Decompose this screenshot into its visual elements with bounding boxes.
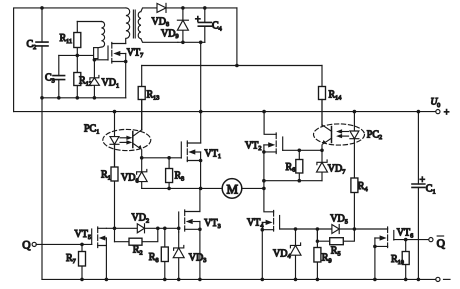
svg-text:PC2: PC2: [367, 129, 382, 141]
wire : VT1 source down to motor node: [200, 161, 202, 189]
capacitor C3: [45, 55, 65, 97]
svg-text:VD3: VD3: [189, 252, 207, 264]
zener diode VD7: [317, 150, 346, 180]
node : R6 top junction: [298, 149, 302, 153]
svg-text:R11: R11: [60, 33, 73, 45]
wire : VT7 drain up to primary winding: [125, 39, 127, 44]
node : R9/R5 riser junction: [316, 227, 320, 231]
wire : VT2 source down to motor node: [263, 152, 265, 189]
capacitor C4: [195, 8, 222, 42]
node : VT6 source junction: [373, 245, 377, 249]
svg-text:VD1: VD1: [102, 78, 120, 90]
node : R3 top junction: [167, 156, 171, 160]
node : VT3 gate junction: [177, 227, 181, 231]
node : VT1 source junction: [199, 159, 203, 163]
svg-text:R14: R14: [329, 90, 342, 102]
wire : VT4 source to bottom rail: [261, 230, 263, 280]
node : right motor junction: [262, 187, 266, 191]
resistor R1: [101, 144, 118, 241]
transistor VT7 (MOSFET): [94, 43, 143, 64]
resistor R9: [314, 229, 332, 279]
optocoupler PC1: [84, 124, 151, 151]
node : VD7 top junction: [320, 149, 324, 153]
wire : VT6 drain wire y=228.3: [354, 227, 387, 230]
terminal Q-bar output: [429, 236, 446, 250]
svg-text:C4: C4: [212, 21, 222, 33]
wire : VT4 gate wire y=229: [280, 228, 355, 230]
wire : main positive bus y=111.6: [14, 111, 436, 113]
svg-text:VD5: VD5: [330, 214, 348, 226]
diode LED of PC2: [350, 112, 359, 178]
svg-text:VT1: VT1: [205, 148, 221, 160]
svg-text:+: +: [420, 175, 426, 186]
transistor VT2 (MOSFET mirrored): [245, 112, 283, 154]
wire : VT1 gate wire y=157.8: [142, 157, 182, 159]
node : main bus junctions: [113, 110, 421, 114]
node : aux feed junction: [235, 64, 239, 68]
svg-text:R13: R13: [147, 90, 160, 102]
svg-text:R1: R1: [101, 170, 111, 182]
terminal Q input: [22, 240, 36, 252]
node : PC1 emitter / VD6 / VT1 gate junction: [140, 156, 144, 160]
svg-text:Q: Q: [437, 238, 446, 250]
transformer T1 primary winding: [126, 8, 130, 38]
node : bottom rail junctions: [80, 278, 420, 282]
svg-text:C2: C2: [27, 39, 37, 51]
svg-text:VD7: VD7: [328, 164, 346, 176]
svg-text:VT2: VT2: [245, 140, 261, 152]
svg-text:VD2: VD2: [132, 213, 150, 225]
zener diode VD1: [89, 60, 119, 98]
zener diode VD6: [121, 158, 147, 189]
svg-text:VT5: VT5: [75, 229, 91, 241]
diode VD2: [132, 213, 150, 233]
transformer T1 secondary winding: [138, 8, 178, 42]
svg-text:+: +: [444, 107, 450, 118]
resistor R11: [60, 22, 81, 56]
diode VD8: [152, 3, 237, 28]
wire : aux feed wire y=65.5 R13 to R14: [142, 65, 322, 67]
node : VT2 source junction: [262, 150, 266, 154]
zener diode VD3: [173, 232, 206, 279]
wire : PC2 light arrows: [336, 129, 348, 138]
wire : top-left rail (main + to primary top): [14, 8, 126, 112]
node : VT4 source junction: [261, 228, 265, 232]
terminal U0 +: [431, 98, 450, 119]
resistor R2: [115, 228, 158, 256]
node : C2 top junction: [40, 6, 44, 10]
wire : aux common wire y=42.3: [178, 41, 205, 43]
wire : riser main bus to VT1 drain x=200.7: [200, 42, 202, 143]
svg-text:PC1: PC1: [84, 124, 99, 136]
wire : VT7 source down to primary common: [125, 62, 127, 98]
svg-text:M: M: [227, 182, 239, 197]
node : VD4 top junction: [294, 227, 298, 231]
node : R11/R12 junction: [76, 54, 80, 58]
diode LED of PC1: [110, 112, 119, 167]
node : junctions on primary common: [40, 96, 96, 100]
svg-text:VD4: VD4: [273, 248, 291, 260]
svg-text:R2: R2: [133, 245, 143, 257]
resistor R5: [316, 229, 355, 257]
svg-text:VD8: VD8: [152, 16, 170, 28]
node : junctions on left motor wire: [167, 187, 202, 191]
svg-text:VD9: VD9: [161, 28, 179, 40]
svg-text:R6: R6: [286, 162, 296, 174]
wire : C2 column down to bottom rail (crosses bus and Q wire): [41, 98, 43, 280]
resistor R14: [319, 66, 342, 127]
wire : aux+ drop at x=236.9: [236, 8, 238, 66]
transformer T1 core: [133, 10, 135, 38]
wire : primary-side common bus y=97.8: [42, 97, 126, 99]
wire : R11 top to feedback winding: [77, 21, 101, 23]
optocoupler PC2: [314, 124, 383, 145]
svg-text:R7: R7: [66, 253, 76, 265]
zener diode VD4: [273, 229, 301, 279]
resistor R8: [149, 228, 169, 279]
transistor phototransistor of PC2: [322, 100, 332, 151]
wire : PC1 light arrows: [120, 136, 132, 145]
svg-text:VT7: VT7: [127, 47, 143, 59]
node : R4 bottom junction: [353, 227, 357, 231]
resistor R10: [391, 240, 409, 280]
motor M: [222, 179, 242, 199]
resistor R12: [74, 55, 92, 97]
node : junctions on clamp wire: [262, 179, 301, 183]
wire : right motor wire y=188.4: [242, 187, 264, 189]
node : VT3 source junction: [198, 228, 202, 232]
svg-text:C3: C3: [45, 73, 55, 85]
terminal negative: [436, 277, 450, 281]
transformer T1 feedback winding: [94, 22, 105, 60]
wire : VT5 source to bottom rail: [105, 246, 107, 280]
transistor VT6 (MOSFET mirrored): [375, 227, 413, 248]
wire : bottom negative rail y=279.4: [42, 278, 436, 280]
svg-text:+: +: [195, 14, 201, 25]
wire : VD7/R6 bottom clamp wire y=180.7: [264, 180, 322, 182]
resistor R4: [351, 178, 368, 228]
transistor VT1 (MOSFET): [181, 141, 221, 162]
resistor R6: [286, 150, 303, 180]
node : R2 riser junction: [156, 227, 160, 231]
svg-text:R8: R8: [149, 252, 159, 264]
wire : VT3 source to bottom rail: [199, 229, 201, 279]
node : aux common junctions: [181, 41, 202, 45]
node : R1 bottom junction: [113, 227, 117, 231]
node : R7 top junction: [80, 243, 84, 247]
wire : C3/R12 top wire y=55.4: [59, 54, 94, 56]
wire : VT3 drain up to motor node: [199, 188, 201, 211]
wire : VT5 drain wire / VT3 gate wire y=228.3: [106, 227, 178, 229]
wire : left motor wire y=188.4: [142, 187, 223, 189]
svg-text:R3: R3: [175, 171, 185, 183]
resistor R3: [166, 158, 185, 189]
node : VD9 top junction: [181, 6, 185, 10]
node : R8 top junction: [163, 227, 167, 231]
svg-text:R4: R4: [358, 181, 368, 193]
wire : VT2 gate wire y=150.3: [283, 149, 322, 151]
wire : VT6 gate wire to Q-bar: [394, 239, 429, 241]
diode VD5: [330, 214, 348, 234]
resistor R13: [138, 66, 159, 131]
svg-text:VT4: VT4: [247, 218, 263, 230]
node : VT7 gate / VD1 node: [93, 58, 97, 62]
svg-text:Q: Q: [22, 240, 31, 252]
wire : VT6 source to bottom rail: [374, 246, 376, 279]
svg-text:R5: R5: [331, 246, 341, 258]
diode VD9: [161, 8, 188, 42]
node : VT7 source junction: [124, 60, 128, 64]
transistor VT4 (MOSFET mirrored): [247, 188, 280, 231]
node : C4 top junction: [203, 6, 207, 10]
svg-text:VT3: VT3: [204, 218, 220, 230]
resistor R7: [66, 244, 86, 279]
transistor VT5 (MOSFET): [75, 227, 107, 248]
capacitor C2: [27, 8, 49, 98]
svg-text:VD6: VD6: [121, 173, 139, 185]
svg-text:C1: C1: [426, 184, 436, 196]
transistor phototransistor of PC1: [133, 100, 142, 158]
svg-text:0: 0: [437, 102, 440, 109]
node : R10 top junction: [404, 238, 408, 242]
capacitor C1: [412, 112, 436, 280]
svg-text:VT6: VT6: [397, 228, 413, 240]
transistor VT3 (MOSFET): [179, 210, 221, 232]
wire : Q input wire y=244.4: [36, 243, 92, 245]
